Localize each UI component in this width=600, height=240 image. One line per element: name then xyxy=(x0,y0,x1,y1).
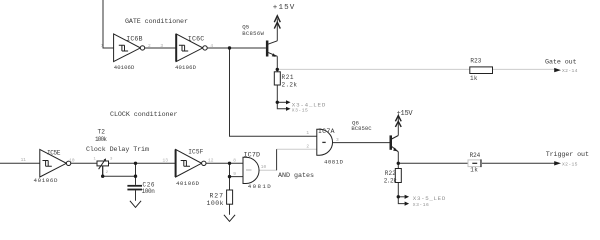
svg-text:2.2k: 2.2k xyxy=(282,81,298,88)
svg-text:X3-5_LED: X3-5_LED xyxy=(413,195,446,202)
svg-text:GATE conditioner: GATE conditioner xyxy=(125,18,188,26)
svg-text:Trigger out: Trigger out xyxy=(546,151,589,159)
svg-text:X3-4_LED: X3-4_LED xyxy=(292,101,326,108)
svg-text:4: 4 xyxy=(210,43,213,49)
svg-text:CLOCK conditioner: CLOCK conditioner xyxy=(110,111,178,119)
svg-text:2.2k: 2.2k xyxy=(384,177,397,184)
svg-text:10: 10 xyxy=(69,157,75,163)
svg-text:2: 2 xyxy=(148,43,151,49)
svg-text:R23: R23 xyxy=(470,57,481,64)
svg-text:1: 1 xyxy=(306,130,309,136)
svg-text:100n: 100n xyxy=(142,188,156,195)
svg-text:AND gates: AND gates xyxy=(278,172,314,180)
svg-text:IC7D: IC7D xyxy=(244,151,261,159)
svg-text:IC6B: IC6B xyxy=(126,36,142,44)
svg-text:40106D: 40106D xyxy=(114,64,135,71)
svg-text:+15V: +15V xyxy=(397,110,414,118)
svg-text:X3-16: X3-16 xyxy=(413,202,429,208)
svg-text:11: 11 xyxy=(21,157,27,163)
svg-text:+15V: +15V xyxy=(273,4,295,12)
svg-text:Gate out: Gate out xyxy=(545,59,577,67)
svg-text:1: 1 xyxy=(101,43,104,49)
svg-text:R27: R27 xyxy=(210,193,224,200)
svg-text:13: 13 xyxy=(163,158,169,164)
svg-text:40106D: 40106D xyxy=(175,64,197,71)
svg-text:BC856W: BC856W xyxy=(242,30,264,37)
svg-text:X2-14: X2-14 xyxy=(562,68,578,74)
svg-text:X2-15: X2-15 xyxy=(562,161,578,167)
svg-text:R24: R24 xyxy=(470,152,481,159)
svg-text:100k: 100k xyxy=(95,136,107,143)
svg-text:40106D: 40106D xyxy=(34,177,59,184)
svg-text:40106D: 40106D xyxy=(176,180,200,187)
svg-text:3: 3 xyxy=(336,137,339,143)
svg-text:IC5E: IC5E xyxy=(47,149,61,156)
svg-text:10: 10 xyxy=(261,164,267,170)
svg-text:9: 9 xyxy=(233,171,236,177)
svg-text:1k: 1k xyxy=(470,75,478,82)
svg-text:4081D: 4081D xyxy=(324,158,344,165)
svg-text:R22: R22 xyxy=(385,170,396,177)
svg-text:Clock Delay Trim: Clock Delay Trim xyxy=(86,146,149,154)
svg-text:12: 12 xyxy=(208,158,214,164)
svg-text:IC7A: IC7A xyxy=(318,128,335,136)
svg-text:2: 2 xyxy=(306,144,309,150)
svg-text:BC850C: BC850C xyxy=(351,125,372,132)
svg-text:3: 3 xyxy=(160,43,163,49)
svg-text:100k: 100k xyxy=(207,200,224,207)
svg-text:R21: R21 xyxy=(282,74,294,81)
svg-text:8: 8 xyxy=(233,158,236,164)
svg-text:IC6C: IC6C xyxy=(188,36,205,44)
svg-text:1k: 1k xyxy=(470,166,478,173)
svg-text:T2: T2 xyxy=(98,128,106,135)
svg-text:X3-15: X3-15 xyxy=(292,108,308,114)
svg-text:IC5F: IC5F xyxy=(188,149,203,156)
